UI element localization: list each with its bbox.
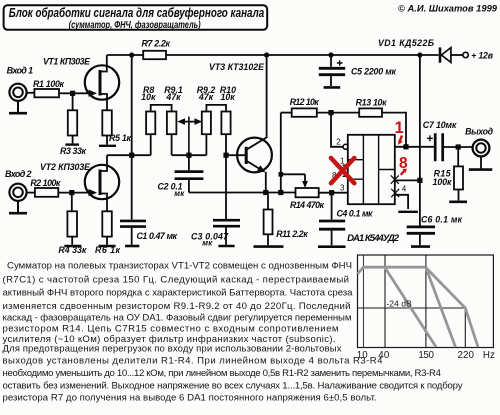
node C1/R8 junction: [129, 153, 134, 158]
wire node to R8 segment: [107, 154, 151, 156]
svg-text:Блок обработки сигнала для саб: Блок обработки сигнала для сабвуферного …: [9, 5, 265, 20]
wire R9.1 bottom lead: [171, 134, 173, 155]
wire input2 to R2: [27, 192, 35, 194]
svg-text:резистора R7 до получения на в: резистора R7 до получения на выводе 6 DA…: [3, 393, 377, 404]
svg-text:R3 33к: R3 33к: [60, 146, 87, 156]
svg-text:47к: 47к: [198, 92, 214, 102]
gang arrow R9.1-R9.2: [181, 121, 199, 123]
capacitor C3: [213, 220, 240, 226]
wire DA1 output pin 6: [395, 146, 437, 148]
svg-text:R4 33к: R4 33к: [58, 245, 87, 255]
wire R6 to ground: [106, 237, 108, 245]
capacitor C7: [435, 133, 443, 161]
resistor R3: [68, 110, 77, 135]
wire R12-left vertical branch: [280, 113, 282, 193]
ground at R3: [65, 143, 79, 145]
node R1/R3/gate junction: [70, 91, 75, 96]
wire R12 left to branch: [281, 112, 292, 114]
gridline 220 Hz partial: [464, 308, 466, 348]
wire junction down to R4: [71, 193, 73, 212]
ground at C3: [218, 245, 234, 248]
wire bracket R9.2-R10 tops: [206, 105, 226, 112]
wire R4 to ground: [71, 237, 73, 245]
svg-text:VT1 КП303Е: VT1 КП303Е: [43, 57, 91, 67]
svg-text:VT3 КТ3102Е: VT3 КТ3102Е: [209, 62, 265, 72]
svg-text:100к: 100к: [433, 177, 453, 187]
svg-text:Для предотвращения перегрузок: Для предотвращения перегрузок по входу п…: [3, 344, 342, 355]
node R10/C3 junction: [223, 153, 228, 158]
wire bracket R8-R9.1 tops: [151, 105, 172, 112]
resistor R8: [146, 112, 155, 135]
node rail/R7 junction: [129, 52, 134, 57]
resistor R1: [34, 89, 59, 97]
ground at C4: [318, 245, 346, 248]
svg-text:R12 10к: R12 10к: [290, 97, 320, 107]
ground at R5: [99, 145, 116, 147]
ground at R11: [254, 245, 284, 248]
wire R2 to VT2 gate: [58, 192, 90, 194]
wire C7 to output connector: [443, 146, 473, 148]
+12V terminal: [463, 52, 468, 57]
diode VD1: [439, 47, 442, 62]
node R12/R13/pin2 junction: [328, 110, 333, 115]
response curve flat top: [363, 266, 426, 269]
VT1 source wire to R5: [100, 94, 107, 110]
svg-text:необходимо уменьшить до 10...1: необходимо уменьшить до 10...12 кОм, при…: [3, 368, 442, 379]
wire DA1 supply pin to bypass: [395, 179, 420, 181]
resistor R9.1: [167, 112, 177, 135]
wire C3 hang vertical: [225, 155, 227, 219]
wire R15 to ground: [458, 190, 460, 201]
node R15 tap: [456, 144, 461, 149]
svg-text:резистором R14. Цепь C7R15 сов: резистором R14. Цепь C7R15 совместно с в…: [3, 323, 339, 334]
-24dB level line: [358, 307, 466, 309]
wire R5 to ground: [106, 136, 108, 145]
capacitor C2: [175, 172, 204, 179]
node rail/C5: [328, 52, 333, 57]
svg-text:10к: 10к: [220, 92, 235, 102]
svg-text:R5 1к: R5 1к: [109, 133, 132, 143]
resistor R10: [221, 112, 230, 135]
wire rail to R8/C1 node (vertical x=131.7): [131, 55, 133, 155]
svg-text:VD1 КД522Б: VD1 КД522Б: [378, 38, 434, 48]
wire junction down to DA1 pin 2: [331, 113, 343, 147]
VT3 emitter arrow: [257, 165, 265, 172]
svg-text:(сумматор, ФНЧ, фазовращатель): (сумматор, ФНЧ, фазовращатель): [69, 19, 201, 31]
ground at output connector: [480, 156, 482, 168]
pin 1 stub: [343, 164, 348, 166]
pin 2 inverting bubble: [343, 144, 348, 149]
ground at R15: [449, 201, 467, 204]
x mark unused pin upper: [391, 175, 399, 183]
red correction X over pins 1/8: [331, 158, 354, 183]
svg-text:47к: 47к: [165, 92, 181, 102]
svg-text:каскад - фазовращатель на ОУ D: каскад - фазовращатель на ОУ DA1. Фазовы…: [3, 313, 352, 324]
wire wiper tap horizontal: [281, 173, 305, 175]
description paragraph 2: [3, 344, 463, 404]
ground at R4: [64, 245, 81, 248]
svg-text:мк: мк: [174, 189, 185, 198]
input connector X1 (Вход 1): [9, 84, 26, 101]
transistor VT3 (КТ3102Е): [237, 138, 272, 173]
svg-text:150: 150: [418, 350, 434, 361]
ground at input 1: [17, 101, 19, 112]
wire power rail down to C6: [419, 55, 421, 226]
svg-text:2: 2: [336, 138, 341, 147]
node rail/VT3 collector: [264, 52, 269, 57]
node wiper-branch junction: [278, 190, 283, 195]
VT2 source wire to R6: [100, 194, 107, 212]
VT3 collector wire: [246, 55, 266, 150]
svg-text:(R7C1) с частотой среза 150 Гц: (R7C1) с частотой среза 150 Гц. Следующи…: [3, 274, 349, 285]
resistor R5: [102, 110, 112, 135]
wire R9.1 to R9.2 bottoms: [172, 154, 207, 156]
x mark unused pin lower: [391, 189, 399, 197]
svg-text:изменяется сдвоенным резисторо: изменяется сдвоенным резистором R9.1-R9.…: [3, 301, 351, 312]
svg-text:R13 10к: R13 10к: [356, 98, 388, 108]
pin 4 stub wire: [395, 195, 408, 209]
gridline 150 Hz: [425, 255, 427, 348]
ground at input 2: [17, 201, 19, 212]
node R13/output junction: [403, 144, 408, 149]
node R14/C4 junction: [329, 190, 334, 195]
svg-text:Сумматор на полевых транзистор: Сумматор на полевых транзисторах VT1-VT2…: [7, 261, 352, 272]
resistor R2: [35, 188, 58, 197]
svg-text:VT2 КП303Е: VT2 КП303Е: [40, 162, 91, 172]
svg-text:DA1 К544УД2: DA1 К544УД2: [347, 233, 400, 244]
svg-text:1: 1: [395, 119, 404, 137]
ground at C5: [324, 86, 341, 89]
wire C2 feedback to emitter node: [189, 192, 296, 194]
svg-text:C7 10мк: C7 10мк: [423, 120, 457, 130]
svg-text:Вход 2: Вход 2: [5, 169, 32, 179]
gate arrow VT1: [89, 90, 98, 97]
C7 polarity plus: [427, 135, 433, 141]
capacitor C6: [407, 227, 435, 233]
red arrow under 1: [400, 136, 402, 142]
resistor R6: [102, 211, 112, 236]
potentiometer R14: [296, 188, 319, 197]
node supply pin junction: [417, 178, 422, 183]
frequency response graph: [357, 255, 495, 361]
capacitor C5: [330, 55, 332, 67]
svg-text:10к: 10к: [141, 92, 156, 102]
+12V rail wire: [107, 54, 439, 56]
svg-text:активный ФНЧ второго порядка с: активный ФНЧ второго порядка с характери…: [3, 288, 354, 299]
op-amp DA1 box: [348, 135, 395, 204]
wire R12 right to R13: [317, 112, 359, 114]
capacitor C1: [120, 221, 146, 227]
svg-text:C4 0.1 мк: C4 0.1 мк: [337, 209, 374, 219]
gate arrow VT2: [89, 189, 98, 196]
resistor R12: [292, 108, 317, 116]
capacitor C4: [319, 221, 345, 229]
VT3 emitter wire: [246, 161, 263, 172]
resistor R15: [454, 166, 463, 189]
wire R1 to VT1 gate: [59, 92, 90, 94]
node rail/power-down wire: [417, 52, 422, 57]
ground at C6: [411, 245, 430, 248]
wire emitter node to R11: [267, 193, 269, 210]
gridline 10 Hz: [362, 255, 364, 348]
svg-text:R7 2.2к: R7 2.2к: [142, 39, 171, 49]
VT2 drain wire to summing node: [100, 155, 107, 171]
pin 8 stub: [343, 175, 348, 177]
resistor R9.2: [202, 112, 211, 135]
svg-text:Hz: Hz: [483, 350, 495, 361]
svg-text:R11 2.2к: R11 2.2к: [276, 229, 308, 239]
wire R13 right down to output node: [382, 113, 406, 147]
response curve 220Hz slope: [426, 268, 478, 347]
wire R3 to ground: [72, 136, 74, 144]
wiper arrow of R14: [304, 174, 306, 183]
svg-text:R2 100к: R2 100к: [30, 178, 61, 188]
svg-text:1: 1: [340, 157, 345, 166]
svg-text:+ 12в: + 12в: [471, 50, 494, 60]
svg-text:выходов установлены делители R: выходов установлены делители R1-R4. При …: [3, 356, 384, 367]
ground at pin 4: [398, 211, 418, 213]
C5 polarity plus: [337, 60, 343, 66]
resistor R7: [143, 51, 166, 59]
wire R8 bottom lead: [150, 134, 152, 155]
transistor VT1 (JFET КП303Е): [85, 65, 119, 99]
wire input1 to R1: [27, 92, 35, 94]
wire R9.2 bottom lead: [205, 134, 207, 155]
svg-text:C6 0.1 мк: C6 0.1 мк: [421, 214, 463, 224]
resistor R4: [67, 211, 77, 236]
response curve 150Hz slope: [426, 268, 456, 347]
svg-text:R14 470к: R14 470к: [290, 200, 325, 210]
svg-text:4: 4: [402, 185, 407, 194]
svg-text:R6 1к: R6 1к: [95, 245, 121, 255]
transistor VT2 (JFET КП303Е): [85, 165, 119, 199]
wire R11 to ground: [267, 234, 269, 245]
svg-text:© А.И. Шихатов 1999: © А.И. Шихатов 1999: [398, 4, 498, 15]
svg-text:220: 220: [458, 350, 475, 361]
ground at R6: [99, 245, 116, 248]
input connector X2 (Вход 2): [9, 184, 26, 201]
output connector (Выход): [473, 140, 490, 157]
wire R14 right to DA1 pin3: [319, 192, 348, 194]
svg-text:оставить без изменений. Выходн: оставить без изменений. Выходное напряже…: [3, 381, 463, 392]
ground at C1: [125, 245, 139, 248]
gridline 40 Hz: [384, 255, 386, 348]
svg-text:-24 dB: -24 dB: [386, 299, 412, 309]
resistor R13: [359, 108, 382, 116]
red arrow under 8: [401, 171, 404, 175]
description paragraph 1: [3, 261, 354, 345]
VT1 drain wire to rail: [100, 55, 107, 72]
wire emitter down: [265, 172, 267, 193]
svg-text:Выход: Выход: [465, 127, 494, 137]
wire output node to R15: [457, 147, 459, 166]
response curve subsonic rise: [358, 267, 364, 274]
svg-text:C5 2200 мк: C5 2200 мк: [351, 67, 397, 77]
title frame: [4, 5, 268, 30]
svg-text:Вход 1: Вход 1: [7, 65, 33, 75]
resistor R11: [264, 210, 273, 235]
svg-text:3: 3: [340, 184, 345, 193]
svg-text:C1 0.47 мк: C1 0.47 мк: [137, 231, 178, 241]
wire R10 bottom lead: [225, 134, 227, 155]
response curve 40Hz slope: [385, 268, 436, 347]
graph plot frame: [358, 255, 494, 348]
node wiper tap: [279, 172, 284, 177]
wire R10 to VT3 base: [226, 154, 245, 156]
artifact tick above R7: [146, 40, 149, 43]
svg-text:R1 100к: R1 100к: [33, 79, 65, 89]
svg-text:мк: мк: [202, 239, 213, 248]
node C2 tap junction: [186, 153, 191, 158]
wire junction down to R3: [72, 93, 74, 110]
node R2/R4/gate junction: [69, 190, 74, 195]
node emitter junction: [263, 190, 268, 195]
